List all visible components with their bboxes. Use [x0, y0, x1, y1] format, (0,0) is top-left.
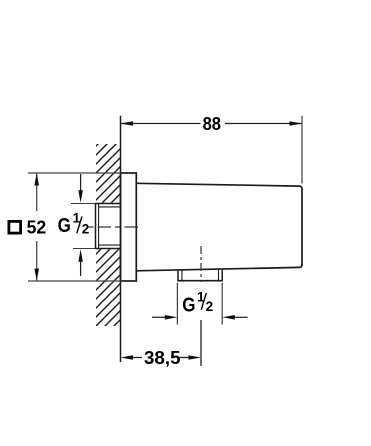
- svg-text:G: G: [58, 214, 71, 237]
- nipple top edge extension line: [71, 203, 96, 205]
- svg-text:38,5: 38,5: [144, 347, 181, 368]
- wall hatch: [90, 116, 126, 359]
- svg-text:2: 2: [206, 299, 214, 314]
- inlet thread arrows: [78, 174, 83, 276]
- dimension square 52: [9, 173, 46, 281]
- inlet thread nipple G1/2: [96, 204, 121, 249]
- extension line top of 52: [28, 172, 121, 174]
- svg-text:52: 52: [27, 217, 47, 238]
- nipple bottom edge extension line: [73, 248, 96, 250]
- svg-text:G: G: [182, 294, 195, 317]
- inlet centerline: [88, 226, 140, 228]
- body (tapered spout): [137, 183, 303, 270]
- wall surface line: [120, 116, 122, 362]
- extension line bottom of 52: [28, 280, 121, 282]
- outlet stub thread G1/2: [177, 269, 223, 281]
- flange (wall escutcheon plate): [121, 173, 137, 281]
- svg-text:2: 2: [82, 222, 90, 237]
- outlet extension lines: [176, 283, 178, 325]
- label G 1/2 inlet: [58, 210, 90, 237]
- outlet thread dimension arrows: [152, 315, 248, 320]
- dimension 38,5: [121, 347, 202, 368]
- label G 1/2 outlet: [182, 290, 213, 317]
- outlet centerline: [200, 246, 202, 282]
- extension line right of 88: [301, 116, 303, 184]
- nipple background gap in hatch: [95, 203, 121, 250]
- svg-text:88: 88: [203, 113, 221, 134]
- dimension 88: [121, 113, 303, 134]
